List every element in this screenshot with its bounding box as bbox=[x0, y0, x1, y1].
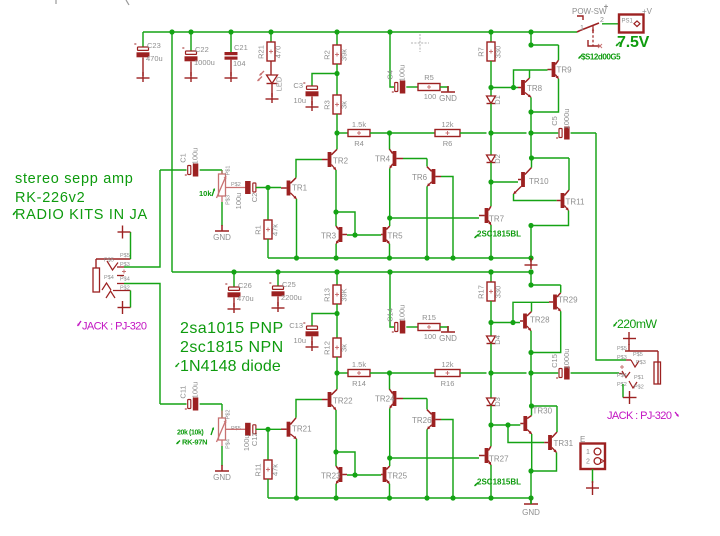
ground bbox=[524, 498, 538, 504]
capacitor C5 bbox=[550, 109, 571, 142]
transistor TR26 bbox=[412, 410, 441, 430]
jack output PJ-320 bbox=[617, 346, 661, 391]
svg-text:P$4: P$4 bbox=[120, 277, 130, 283]
junction bbox=[510, 320, 515, 325]
transistor TR31 bbox=[544, 432, 573, 453]
svg-text:C11: C11 bbox=[179, 385, 188, 398]
wire bbox=[389, 218, 391, 226]
wire bbox=[336, 357, 338, 373]
wire bbox=[296, 199, 298, 258]
ground bbox=[266, 98, 279, 100]
svg-text:-: - bbox=[392, 327, 395, 336]
svg-text:-: - bbox=[556, 373, 559, 382]
svg-text:2200u: 2200u bbox=[281, 293, 302, 302]
junction bbox=[228, 29, 233, 34]
svg-text:C25: C25 bbox=[282, 280, 296, 289]
junction bbox=[528, 495, 533, 500]
svg-text:TR28: TR28 bbox=[530, 316, 550, 325]
svg-text:1000u: 1000u bbox=[562, 349, 571, 370]
wire bbox=[390, 217, 479, 219]
capacitor C21 bbox=[225, 43, 248, 68]
junction bbox=[334, 495, 339, 500]
svg-text:100u: 100u bbox=[191, 148, 200, 165]
svg-text:TR6: TR6 bbox=[412, 173, 428, 182]
resistor R16 bbox=[435, 360, 460, 388]
diode D3 bbox=[487, 397, 503, 407]
wire bbox=[268, 497, 531, 499]
svg-text:P$3: P$3 bbox=[226, 195, 232, 205]
junction bbox=[333, 449, 338, 454]
wire bbox=[560, 285, 562, 293]
junction bbox=[387, 495, 392, 500]
wire bbox=[336, 32, 338, 45]
svg-text:P$5: P$5 bbox=[617, 346, 627, 352]
frame mark bbox=[55, 0, 57, 4]
svg-text:2: 2 bbox=[586, 459, 590, 466]
wire bbox=[230, 60, 232, 76]
resistor R17 bbox=[477, 282, 503, 301]
ground bbox=[137, 77, 150, 79]
wire bbox=[530, 97, 532, 112]
wire bbox=[531, 453, 557, 472]
wire bbox=[490, 32, 492, 42]
transistor TR5 bbox=[381, 226, 403, 244]
svg-text:R2: R2 bbox=[323, 50, 332, 60]
frame mark bbox=[126, 0, 129, 5]
junction bbox=[488, 269, 493, 274]
wire bbox=[531, 79, 559, 112]
junction bbox=[334, 255, 339, 260]
wire bbox=[268, 257, 531, 259]
svg-text:P$3: P$3 bbox=[617, 355, 627, 361]
junction bbox=[334, 71, 339, 76]
svg-text:47k: 47k bbox=[271, 464, 280, 476]
wire bbox=[233, 272, 235, 287]
wire bbox=[335, 484, 337, 498]
wire bbox=[514, 70, 548, 88]
svg-text:TR2: TR2 bbox=[333, 157, 349, 166]
wire input ch2 bbox=[124, 284, 160, 405]
svg-text:1: 1 bbox=[580, 25, 584, 32]
junction bbox=[488, 269, 493, 274]
ground bbox=[225, 77, 238, 79]
ground bbox=[525, 264, 538, 266]
svg-text:TR25: TR25 bbox=[388, 472, 408, 481]
svg-text:TR8: TR8 bbox=[527, 84, 543, 93]
transistor TR27 bbox=[479, 446, 509, 465]
junction bbox=[528, 468, 533, 473]
svg-text:C21: C21 bbox=[234, 43, 248, 52]
svg-text:R16: R16 bbox=[441, 379, 455, 388]
wire bbox=[531, 406, 533, 416]
wire bbox=[628, 344, 630, 351]
svg-text:220mW: 220mW bbox=[617, 317, 657, 331]
wire bbox=[571, 132, 596, 134]
svg-text:C12: C12 bbox=[250, 432, 259, 446]
svg-text:2SC1815BL: 2SC1815BL bbox=[477, 478, 521, 487]
svg-text:100: 100 bbox=[424, 92, 437, 101]
ground bbox=[272, 307, 285, 309]
wire bbox=[296, 439, 298, 498]
junction bbox=[268, 29, 273, 34]
wire bbox=[389, 373, 391, 390]
junction bbox=[529, 403, 534, 408]
svg-text:D4: D4 bbox=[493, 335, 502, 345]
wire bbox=[530, 112, 532, 133]
svg-text:P$2: P$2 bbox=[617, 382, 627, 388]
svg-text:100: 100 bbox=[424, 332, 437, 341]
transistor TR1 bbox=[281, 178, 308, 199]
resistor R5 bbox=[418, 73, 440, 101]
svg-text:1000u: 1000u bbox=[562, 109, 571, 130]
wire bbox=[142, 32, 144, 47]
wire bbox=[230, 32, 232, 52]
resistor R7 bbox=[477, 42, 503, 61]
ground bbox=[118, 226, 131, 239]
wire bbox=[426, 429, 428, 498]
junction bbox=[387, 269, 392, 274]
wire bbox=[491, 424, 520, 426]
svg-text:C3: C3 bbox=[293, 81, 303, 90]
svg-text:TR11: TR11 bbox=[566, 198, 586, 207]
transistor TR21 bbox=[281, 418, 312, 439]
svg-text:P$3: P$3 bbox=[120, 262, 130, 268]
wire bbox=[256, 187, 281, 189]
wire bbox=[531, 211, 569, 226]
svg-text:R15: R15 bbox=[422, 313, 436, 322]
svg-text:R6: R6 bbox=[443, 139, 453, 148]
junction bbox=[424, 255, 429, 260]
wire bbox=[568, 158, 570, 190]
svg-text:TR3: TR3 bbox=[321, 232, 337, 241]
wire bbox=[233, 298, 235, 308]
svg-text:-: - bbox=[556, 133, 559, 142]
junction bbox=[334, 29, 339, 34]
junction bbox=[450, 495, 455, 500]
svg-text:100u: 100u bbox=[398, 305, 407, 322]
svg-text:100u: 100u bbox=[234, 193, 243, 210]
wire bbox=[403, 398, 427, 400]
junction bbox=[387, 455, 392, 460]
wire bbox=[491, 322, 520, 324]
svg-text:P$4: P$4 bbox=[617, 373, 627, 379]
svg-text:TR10: TR10 bbox=[529, 177, 549, 186]
wire bbox=[160, 403, 187, 405]
svg-text:104: 104 bbox=[233, 59, 246, 68]
resistor R3 bbox=[323, 95, 349, 114]
junction bbox=[275, 269, 280, 274]
junction bbox=[334, 269, 339, 274]
junction bbox=[334, 269, 339, 274]
wire bbox=[491, 181, 518, 183]
junction bbox=[528, 370, 533, 375]
wire bbox=[200, 403, 222, 405]
potentiometer 10k bbox=[217, 166, 241, 205]
wire bbox=[531, 158, 533, 168]
transistor TR28 bbox=[520, 312, 550, 331]
wire bbox=[531, 311, 561, 352]
wire bbox=[370, 372, 435, 374]
resistor R14 bbox=[348, 360, 370, 388]
wire bbox=[426, 399, 428, 410]
wire bbox=[390, 457, 479, 459]
svg-text:D2: D2 bbox=[493, 154, 502, 164]
svg-text:P$5: P$5 bbox=[104, 258, 114, 264]
wire bbox=[440, 327, 448, 331]
wire bbox=[491, 372, 527, 374]
junction bbox=[334, 130, 339, 135]
wire bbox=[531, 302, 533, 311]
junction bbox=[488, 320, 493, 325]
wire bbox=[491, 132, 527, 134]
svg-text:3k: 3k bbox=[340, 344, 349, 352]
svg-text:39K: 39K bbox=[340, 288, 349, 301]
junction bbox=[387, 269, 392, 274]
svg-text:C15: C15 bbox=[550, 354, 559, 368]
wire bbox=[335, 244, 337, 258]
svg-text:TR23: TR23 bbox=[321, 472, 341, 481]
ground bbox=[592, 481, 594, 495]
wire bbox=[490, 406, 492, 426]
transistor TR3 bbox=[321, 226, 347, 244]
ground bbox=[441, 326, 455, 332]
svg-text:100u: 100u bbox=[398, 65, 407, 82]
wire bbox=[267, 429, 269, 460]
wire bbox=[335, 212, 337, 226]
wire bbox=[571, 372, 619, 374]
wire bbox=[221, 446, 223, 466]
svg-text:E: E bbox=[580, 435, 585, 444]
svg-text:P$5: P$5 bbox=[633, 352, 643, 358]
diode D2 bbox=[487, 154, 503, 164]
svg-text:TR5: TR5 bbox=[388, 232, 404, 241]
junction bbox=[352, 472, 357, 477]
transistor TR30 bbox=[520, 407, 552, 435]
svg-text:P$1: P$1 bbox=[634, 375, 644, 381]
ground bbox=[118, 301, 131, 314]
wire bbox=[490, 225, 492, 258]
svg-text:TR30: TR30 bbox=[533, 407, 553, 416]
transistor TR22 bbox=[322, 389, 353, 410]
wire bbox=[490, 163, 492, 183]
svg-text:R3: R3 bbox=[323, 100, 332, 110]
wire bbox=[490, 425, 492, 446]
svg-text:C4: C4 bbox=[386, 70, 395, 80]
svg-text:C26: C26 bbox=[238, 281, 252, 290]
transistor TR29 bbox=[549, 293, 578, 312]
junction bbox=[387, 370, 392, 375]
wire bbox=[347, 234, 381, 236]
wire bbox=[403, 158, 427, 160]
wire bbox=[531, 372, 558, 374]
svg-text:TR24: TR24 bbox=[375, 395, 395, 404]
wire output ch1 bbox=[596, 133, 626, 360]
LED bbox=[258, 71, 284, 91]
svg-text:330: 330 bbox=[494, 286, 503, 299]
switch POW-SW bbox=[572, 5, 608, 49]
junction bbox=[265, 427, 270, 432]
svg-text:P$1: P$1 bbox=[226, 166, 232, 176]
svg-text:TR4: TR4 bbox=[375, 155, 391, 164]
wire bbox=[389, 168, 391, 218]
wire bbox=[530, 353, 532, 374]
wire bbox=[530, 331, 532, 353]
capacitor C1 bbox=[179, 148, 200, 179]
svg-text:330: 330 bbox=[494, 46, 503, 59]
wire bbox=[556, 406, 558, 432]
wire +V rail 2 bbox=[172, 271, 531, 273]
wire bbox=[529, 70, 531, 78]
svg-text:R14: R14 bbox=[352, 379, 366, 388]
svg-text:P$4: P$4 bbox=[226, 439, 232, 449]
wire bbox=[142, 58, 144, 77]
svg-text:470: 470 bbox=[274, 46, 283, 59]
svg-text:PS1: PS1 bbox=[622, 19, 634, 25]
wire bbox=[389, 408, 391, 458]
capacitor C15 bbox=[550, 349, 571, 382]
junction bbox=[333, 209, 338, 214]
wire +V rail bbox=[143, 31, 577, 33]
svg-text:R4: R4 bbox=[354, 139, 364, 148]
junction bbox=[488, 255, 493, 260]
transistor TR7 bbox=[479, 206, 505, 225]
wire bbox=[426, 159, 428, 167]
wire bbox=[460, 132, 487, 134]
svg-text:P$2: P$2 bbox=[634, 385, 644, 391]
diode D4 bbox=[487, 335, 503, 345]
wire bbox=[335, 170, 337, 212]
ground bbox=[306, 346, 319, 348]
svg-text:-: - bbox=[392, 87, 395, 96]
wire bbox=[558, 45, 560, 60]
ground bbox=[306, 106, 319, 108]
svg-text:100u: 100u bbox=[191, 382, 200, 399]
wire bbox=[530, 272, 532, 285]
svg-text:GND: GND bbox=[213, 473, 231, 482]
origin crosshair bbox=[411, 42, 429, 44]
wire bbox=[190, 32, 192, 51]
wire bbox=[530, 226, 532, 259]
wire bbox=[267, 239, 269, 258]
wire bbox=[491, 87, 518, 89]
capacitor C11 bbox=[179, 382, 200, 413]
svg-text:GND: GND bbox=[439, 94, 457, 103]
svg-text:D1: D1 bbox=[493, 95, 502, 105]
svg-text:-: - bbox=[182, 43, 185, 52]
capacitor C12 bbox=[242, 423, 259, 451]
ground bbox=[441, 86, 455, 92]
wire bbox=[270, 32, 272, 42]
wire bbox=[440, 87, 448, 91]
junction bbox=[387, 130, 392, 135]
junction bbox=[188, 29, 193, 34]
wire bbox=[490, 61, 492, 96]
resistor R11 bbox=[254, 460, 280, 479]
svg-text:1000u: 1000u bbox=[194, 58, 215, 67]
svg-text:C1: C1 bbox=[179, 153, 188, 163]
junction bbox=[231, 269, 236, 274]
svg-text:470u: 470u bbox=[237, 294, 254, 303]
svg-text:P$5: P$5 bbox=[120, 253, 130, 259]
junction bbox=[528, 223, 533, 228]
svg-text:P$4: P$4 bbox=[104, 275, 114, 281]
wire bbox=[490, 182, 492, 206]
wire bbox=[337, 132, 348, 134]
svg-text:C23: C23 bbox=[147, 41, 161, 50]
svg-text:D3: D3 bbox=[493, 397, 502, 407]
ground bbox=[623, 332, 636, 345]
wire bbox=[277, 297, 279, 307]
junction bbox=[334, 311, 339, 316]
svg-text:JACK : PJ-320: JACK : PJ-320 bbox=[607, 410, 672, 422]
svg-text:P$3: P$3 bbox=[636, 360, 646, 366]
wire bbox=[256, 428, 281, 430]
transistor TR2 bbox=[322, 149, 349, 170]
transistor TR8 bbox=[518, 78, 543, 97]
wire bbox=[490, 104, 492, 134]
capacitor C3 bbox=[303, 78, 319, 96]
svg-text:LED: LED bbox=[275, 76, 284, 91]
wire bbox=[336, 373, 338, 389]
wire bbox=[441, 177, 453, 259]
wire input ch1 bbox=[124, 170, 160, 267]
wire bbox=[389, 244, 391, 258]
wire bbox=[312, 74, 337, 87]
wire bbox=[347, 474, 381, 476]
transistor TR9 bbox=[548, 60, 573, 79]
wire bbox=[336, 114, 338, 133]
wire bbox=[336, 304, 338, 338]
junction bbox=[505, 422, 510, 427]
ground bbox=[623, 391, 637, 404]
capacitor C23 bbox=[134, 39, 163, 63]
wire bbox=[390, 272, 394, 327]
svg-text:47k: 47k bbox=[271, 224, 280, 236]
resistor R21 bbox=[257, 42, 283, 61]
transistor TR23 bbox=[321, 466, 347, 484]
junction bbox=[488, 85, 493, 90]
transistor TR4 bbox=[375, 149, 403, 168]
wire bbox=[370, 132, 435, 134]
svg-text:7.5V: 7.5V bbox=[617, 34, 650, 51]
transistor TR11 bbox=[557, 190, 585, 211]
wire bbox=[336, 133, 338, 149]
junction bbox=[528, 350, 533, 355]
svg-text:10u: 10u bbox=[293, 336, 306, 345]
junction bbox=[169, 29, 174, 34]
wire bbox=[531, 44, 559, 46]
svg-text:-: - bbox=[134, 39, 137, 48]
svg-text:R12: R12 bbox=[323, 341, 332, 355]
svg-text:1.5k: 1.5k bbox=[352, 360, 366, 369]
resistor R1 bbox=[254, 220, 280, 239]
svg-text:2sc1815 NPN: 2sc1815 NPN bbox=[180, 339, 284, 356]
svg-text:R13: R13 bbox=[323, 288, 332, 302]
junction bbox=[265, 185, 270, 190]
svg-text:R21: R21 bbox=[257, 45, 266, 59]
wire bbox=[336, 452, 355, 475]
junction bbox=[488, 29, 493, 34]
svg-text:C13: C13 bbox=[289, 321, 303, 330]
svg-text:+V: +V bbox=[642, 7, 653, 16]
svg-text:RK-226v2: RK-226v2 bbox=[15, 190, 85, 206]
wire bbox=[130, 291, 132, 308]
transistor TR10 bbox=[514, 168, 550, 195]
capacitor C13 bbox=[303, 318, 319, 336]
svg-text:RADIO KITS IN JA: RADIO KITS IN JA bbox=[15, 207, 148, 223]
capacitor C14 bbox=[386, 305, 407, 336]
wire bbox=[296, 400, 322, 418]
